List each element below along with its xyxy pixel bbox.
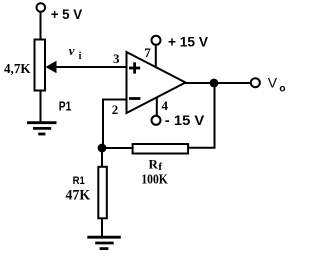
svg-text:4: 4 <box>162 98 169 113</box>
svg-text:2: 2 <box>112 102 119 117</box>
wire pot to ground <box>40 91 42 123</box>
junction output node <box>210 79 219 88</box>
svg-text:R1: R1 <box>73 175 85 187</box>
svg-text:3: 3 <box>113 51 120 66</box>
pin 2 wire <box>103 100 127 149</box>
svg-text:- 15 V: - 15 V <box>165 112 205 128</box>
output wire <box>184 82 251 84</box>
minus input mark <box>129 97 140 100</box>
wiper arrowhead <box>46 61 57 73</box>
feedback wire (output to Rf) <box>189 83 215 148</box>
potentiometer P1 <box>35 40 46 91</box>
resistor R1 <box>98 167 107 219</box>
pin 7 wire <box>155 45 157 68</box>
wire junction to R1 <box>101 148 103 166</box>
svg-text:47K: 47K <box>66 188 91 204</box>
svg-text:7: 7 <box>144 45 151 60</box>
op-amp U1 <box>127 52 186 113</box>
wire R1 to ground <box>101 218 103 236</box>
terminal -15V <box>152 116 161 125</box>
svg-text:100K: 100K <box>141 172 167 187</box>
wire Rf to junction <box>102 147 133 149</box>
plus input mark <box>129 62 140 73</box>
ground (R1) <box>87 237 121 248</box>
terminal +15V <box>152 36 161 45</box>
pin 4 wire <box>156 97 158 116</box>
svg-text:V: V <box>268 74 278 90</box>
ground (pot) <box>27 123 57 134</box>
terminal +5V <box>37 3 46 12</box>
resistor Rf <box>133 144 189 154</box>
wiper wire / pin3 wire <box>55 66 127 68</box>
terminal Vo <box>251 78 260 87</box>
svg-text:4,7K: 4,7K <box>4 62 31 77</box>
svg-text:R: R <box>149 157 159 172</box>
junction inverting node <box>98 144 107 153</box>
wire <box>40 12 42 40</box>
svg-text:+ 15 V: + 15 V <box>168 33 209 49</box>
svg-text:P1: P1 <box>59 99 72 114</box>
svg-text:f: f <box>158 161 162 173</box>
svg-text:i: i <box>79 51 82 62</box>
svg-text:v: v <box>69 43 75 58</box>
svg-text:+ 5 V: + 5 V <box>51 6 83 22</box>
svg-text:o: o <box>279 83 285 94</box>
